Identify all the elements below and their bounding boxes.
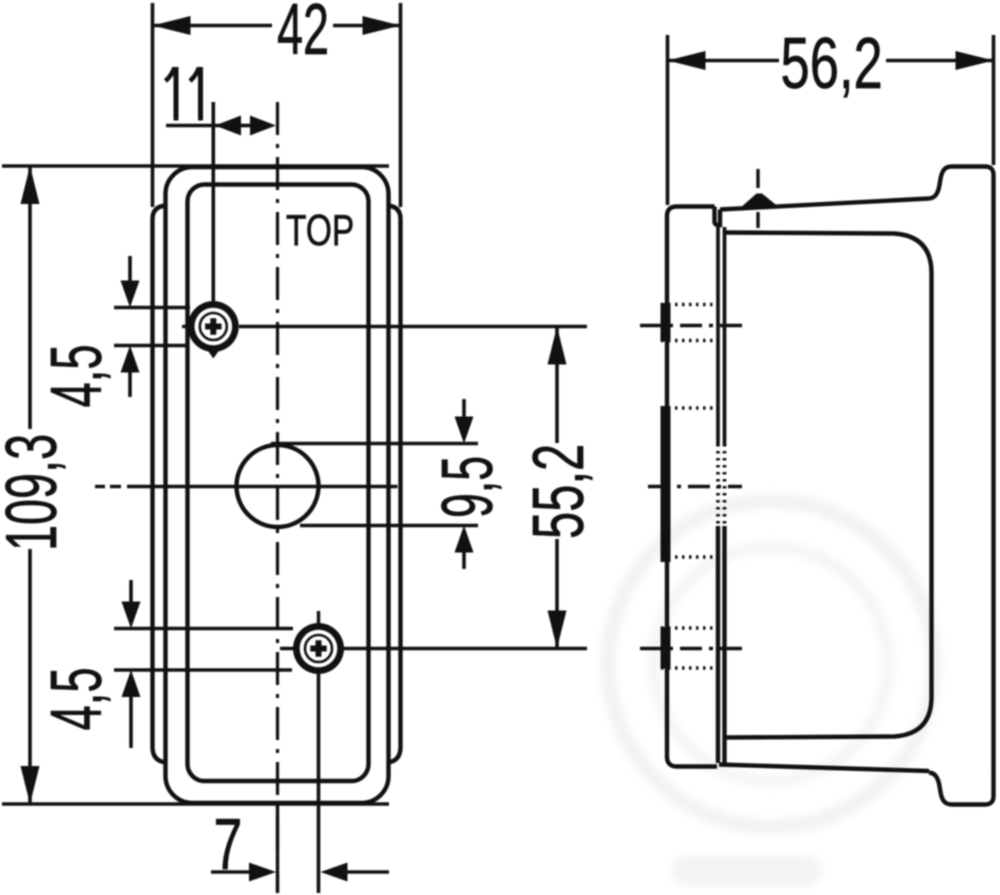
dimension line 56.2 xyxy=(668,59,780,63)
arrow 11 right xyxy=(250,116,276,136)
arrow 11 left xyxy=(215,116,241,136)
bracket outline xyxy=(667,207,717,767)
extension line 9.5 top xyxy=(271,442,478,446)
extension line 9.5 bottom xyxy=(300,524,478,528)
arrow 9.5 top xyxy=(455,417,474,444)
stem between 11 arrows xyxy=(238,124,253,128)
svg-text:7: 7 xyxy=(214,805,243,885)
extension line 109.3 bottom xyxy=(2,802,389,806)
hidden window line b xyxy=(661,555,719,559)
top screw axis centerline xyxy=(640,324,742,327)
arrow 55.2 down xyxy=(548,611,567,649)
lens front lip right edge xyxy=(929,167,994,805)
extension line 109.3 top xyxy=(2,164,389,168)
arrow 4.5 top upper xyxy=(121,281,140,308)
body centerline vertical dash-dot xyxy=(276,102,279,893)
arrow stem 9.5 bottom xyxy=(462,551,466,569)
arrow 7 left xyxy=(249,863,276,882)
top screw xyxy=(182,301,239,359)
leader line 11 xyxy=(166,124,241,128)
arrow 4.5 bottom lower xyxy=(122,670,141,697)
extension line 4.5 top lower xyxy=(114,344,188,348)
svg-text:TOP: TOP xyxy=(286,207,354,255)
digit 1 a xyxy=(174,67,179,121)
arrow stem 9.5 top xyxy=(462,399,466,418)
svg-text:4,5: 4,5 xyxy=(36,344,116,407)
screw axis vertical dash top xyxy=(756,169,759,188)
bottom screw centerline vertical xyxy=(317,674,321,893)
screw centerline vertical top (11 dim) xyxy=(212,102,216,305)
arrow 109.3 down xyxy=(21,766,40,804)
screw tip bump on housing surface xyxy=(741,194,777,208)
arrow 56.2 left xyxy=(668,51,706,70)
centerline solid below body xyxy=(276,806,279,893)
leader line 7 xyxy=(211,870,250,874)
extension line 4.5 bottom lower xyxy=(114,668,292,672)
lens inner outline xyxy=(188,185,369,782)
dimension line 42 xyxy=(153,24,273,28)
tail line 7 right xyxy=(347,870,389,874)
extension line 42 left xyxy=(151,3,155,207)
bottom screw axis centerline xyxy=(640,647,742,650)
arrow 9.5 bottom xyxy=(455,526,474,553)
dimension line 109.3 xyxy=(28,166,32,429)
lens outer outline xyxy=(166,167,389,803)
hidden clip line bottom a xyxy=(661,626,719,630)
extension line 56.2 left xyxy=(666,35,670,205)
extension line 56.2 right xyxy=(992,35,996,165)
digit 1 b xyxy=(198,67,203,121)
housing top surface xyxy=(720,199,929,210)
dimension line 55.2 xyxy=(555,327,559,444)
arrow stem 4.5 top lower xyxy=(128,372,132,397)
screw axis vertical dash bottom xyxy=(756,212,759,228)
housing separation contour xyxy=(724,233,932,738)
horizontal centerline dash xyxy=(110,485,121,488)
housing bottom surface xyxy=(719,765,929,772)
arrow 4.5 top lower xyxy=(121,346,140,373)
horizontal centerline solid xyxy=(127,485,398,488)
mounting plate front edge lines xyxy=(716,227,720,444)
extension line 55.2 top xyxy=(239,325,587,329)
extension line 42 right xyxy=(399,3,403,207)
svg-text:9,5: 9,5 xyxy=(427,456,508,518)
svg-text:42: 42 xyxy=(277,0,329,69)
arrow 42 right xyxy=(363,16,401,35)
arrow 55.2 up xyxy=(548,327,567,365)
hidden clip line top a xyxy=(661,303,719,307)
bottom screw xyxy=(280,611,344,674)
bracket notch xyxy=(715,207,721,226)
arrow 7 right xyxy=(321,863,348,882)
svg-text:109,3: 109,3 xyxy=(0,434,71,551)
housing ear left xyxy=(153,206,167,763)
svg-text:4,5: 4,5 xyxy=(36,667,116,730)
main axis centerline xyxy=(648,485,742,488)
arrow 56.2 right xyxy=(956,51,994,70)
arrow 109.3 up xyxy=(21,166,40,204)
hidden clip line bottom b xyxy=(661,666,719,670)
arrow stem 4.5 bottom lower xyxy=(129,697,133,748)
hidden window line a xyxy=(661,406,719,410)
arrow stem 4.5 top upper xyxy=(128,256,132,282)
arrow stem 4.5 bottom upper xyxy=(129,580,133,603)
extension line 55.2 bottom xyxy=(344,647,587,651)
extension line 4.5 top upper xyxy=(114,306,190,310)
thick grommet bar middle xyxy=(661,406,671,562)
svg-text:55,2: 55,2 xyxy=(519,444,600,539)
hidden clip line top b xyxy=(661,339,719,343)
housing ear right xyxy=(388,206,401,763)
horizontal centerline dot xyxy=(95,485,105,488)
watermark circle xyxy=(608,501,934,886)
arrow 42 left xyxy=(153,16,191,35)
thick grommet bar top xyxy=(661,303,671,342)
svg-text:56,2: 56,2 xyxy=(781,24,883,104)
thick grommet bar bottom xyxy=(661,627,671,669)
arrow 4.5 bottom upper xyxy=(122,602,141,629)
center hole circle xyxy=(237,445,319,527)
extension line 4.5 bottom upper xyxy=(114,627,293,631)
